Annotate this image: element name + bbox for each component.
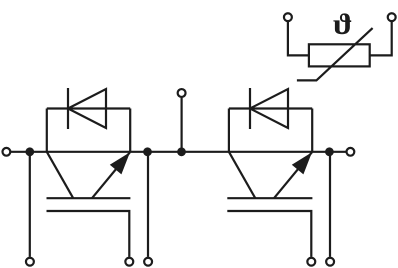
junction dot node A (left collector aux tap): [25, 147, 34, 156]
junction dot node C (right emitter aux tap): [325, 147, 334, 156]
wire thermistor right lead: [370, 22, 392, 56]
wire thermistor left lead: [288, 22, 309, 56]
wire E2 aux vertical: [329, 152, 331, 257]
label theta (temperature symbol): [333, 13, 351, 34]
node terminal G1 (gate, open circle): [125, 258, 133, 266]
transistor Q1 gate plate and gate lead G1: [47, 211, 130, 257]
node terminal 2 (phase, open circle): [178, 89, 186, 97]
junction dot node B (phase node, left cell emitter): [143, 147, 152, 156]
node terminal 1 (left, open circle): [3, 148, 11, 156]
transistor Q2 collector diagonal: [229, 152, 255, 198]
wire D1 box right vertical: [129, 109, 131, 152]
transistor Q1 emitter diagonal with arrow: [92, 152, 130, 198]
wire D1 horizontal (diode branch): [47, 107, 130, 109]
wire E1 aux vertical: [147, 152, 149, 257]
node terminal G2 (gate, open circle): [307, 258, 315, 266]
transistor Q1 body bar: [47, 197, 131, 199]
diode D2 (anti-parallel, right cell): [250, 88, 288, 129]
node thermistor terminal T2 (open circle): [388, 13, 396, 21]
wire D2 box right vertical: [311, 109, 313, 152]
diode D1 (anti-parallel, left cell): [68, 88, 106, 129]
node thermistor terminal T1 (open circle): [284, 13, 292, 21]
transistor Q1 collector diagonal: [47, 152, 73, 198]
wire D2 horizontal (diode branch): [229, 107, 312, 109]
wire left aux vertical: [29, 152, 31, 257]
node terminal 1 aux (bottom-left, open circle): [26, 258, 34, 266]
node terminal E2 aux (open circle): [326, 258, 334, 266]
wire phase terminal vertical: [181, 97, 183, 152]
wire D2 box left vertical: [228, 109, 230, 152]
node terminal E1 aux (open circle): [144, 258, 152, 266]
transistor Q2 body bar: [227, 197, 312, 199]
node terminal 3 (right, open circle): [347, 148, 355, 156]
wire D1 box left vertical: [46, 109, 48, 152]
thermistor R1 body (rectangle): [309, 44, 370, 66]
transistor Q2 emitter diagonal with arrow: [274, 152, 312, 198]
transistor Q2 gate plate and gate lead G2: [227, 211, 311, 257]
junction dot node phase tap: [177, 147, 186, 156]
thermistor R1 diagonal stroke: [297, 28, 373, 80]
wire main bus (DC-/phase bus horizontal): [11, 151, 346, 153]
